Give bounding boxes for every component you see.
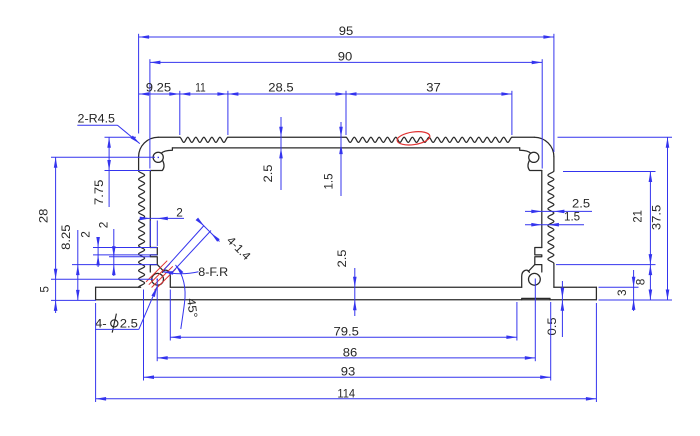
bottom face <box>96 299 597 301</box>
extension x=596.4 <box>595 303 597 402</box>
bottom-left screw boss <box>152 273 164 285</box>
svg-text:28.5: 28.5 <box>268 80 294 94</box>
flange right edge <box>595 287 597 300</box>
top-right corner arc R4.5 <box>534 137 554 157</box>
extension x=227.9 <box>227 91 229 135</box>
extension x=157.2 <box>156 279 158 362</box>
dimension 37.5 (overall height) <box>667 137 669 300</box>
extension y=170.5 <box>105 170 152 172</box>
extension y=300.4 <box>51 299 96 301</box>
svg-text:3: 3 <box>615 289 629 296</box>
extension line x=149.9 <box>149 59 151 168</box>
left wall outer serration <box>139 171 145 287</box>
left flange top <box>96 286 141 288</box>
right flange top <box>554 286 597 288</box>
extension y=256.8 <box>109 256 150 258</box>
svg-text:2: 2 <box>97 222 111 229</box>
dimension 86 (bottom) <box>157 357 535 359</box>
screw channel chamfer bottom-right <box>528 265 535 272</box>
svg-text:2.5: 2.5 <box>335 249 349 268</box>
dimension 8 (right) <box>649 265 651 300</box>
left wall inner slot teeth <box>150 248 157 273</box>
svg-text:7.75: 7.75 <box>92 179 106 205</box>
extension x=179.8 <box>179 91 181 135</box>
top edge middle smooth segment <box>228 136 346 138</box>
left wall outer straight <box>138 157 140 171</box>
dimension 90 <box>150 61 542 63</box>
dimension 2.5 (right wall) <box>525 210 592 212</box>
dimension 2.5 (floor thickness, center) <box>354 268 356 316</box>
svg-text:0.5: 0.5 <box>545 317 559 336</box>
svg-text:11: 11 <box>195 80 205 94</box>
dimension 93 (bottom) <box>144 376 551 378</box>
extension y=157.3 (hole center) <box>51 156 155 158</box>
svg-text:9.25: 9.25 <box>146 80 172 94</box>
svg-text:2.5: 2.5 <box>572 197 591 211</box>
top-left corner arc R4.5 <box>139 137 159 157</box>
svg-text:4-: 4- <box>95 317 107 331</box>
extension line x=542.2 <box>541 59 543 168</box>
extension x=143.5 <box>143 290 145 381</box>
bottom-right screw boss <box>529 273 541 285</box>
svg-text:2.5: 2.5 <box>120 317 139 331</box>
extension y=279.3 (hole center) <box>51 278 153 280</box>
dimension 2 (slot tooth 2) <box>113 229 115 276</box>
dimension 79.5 (bottom) <box>170 336 517 338</box>
extension x=346 <box>345 91 347 135</box>
svg-text:8: 8 <box>634 278 648 285</box>
dimension 2 (tooth protrusion, horizontal) <box>140 217 185 219</box>
dimension 95 (top) <box>139 36 554 38</box>
dimension 1.5 (top serration depth) <box>340 122 342 196</box>
dimension 1.5 (right wall serration) <box>525 224 584 226</box>
svg-text:37.5: 37.5 <box>650 204 664 230</box>
floor top surface <box>170 286 521 288</box>
extension x=157.3 <box>156 221 158 247</box>
svg-text:28: 28 <box>37 208 51 223</box>
right wall outer serration <box>548 171 554 263</box>
top serration group 1 (11mm) <box>180 137 228 142</box>
svg-text:1.5: 1.5 <box>322 173 336 190</box>
extension y=137.2 right <box>558 136 673 138</box>
dimension 3 (flange thickness) <box>633 270 635 311</box>
top serration group 2 (37mm) <box>346 137 512 142</box>
inner top edge <box>172 147 519 149</box>
top edge left smooth segment <box>158 136 180 138</box>
dimension 0.5 (bottom step) <box>561 281 563 337</box>
extension x=511.9 <box>511 91 513 135</box>
extension line x=553.9 <box>553 34 555 152</box>
svg-text:2.5: 2.5 <box>261 164 275 183</box>
dimension 2.5 (top wall thickness) <box>280 117 282 190</box>
extension x=550.7 <box>550 302 552 381</box>
right wall outer lower straight <box>553 264 555 288</box>
svg-text:2: 2 <box>79 231 93 238</box>
extension y=300 right <box>599 299 673 301</box>
dimension 8.25 <box>77 230 79 300</box>
diag dimension line <box>198 220 220 242</box>
left wall inner upper <box>149 171 151 248</box>
flange left edge <box>95 287 97 300</box>
red ellipse annotation on top serration <box>396 130 430 147</box>
note 45 deg with arc leader <box>176 265 186 329</box>
bottom 0.5 step notch near right wall <box>522 298 550 299</box>
dimension 2 (slot tooth 1) <box>97 239 99 267</box>
extension y=247.5 <box>93 247 157 249</box>
svg-text:86: 86 <box>343 345 358 359</box>
extension y=137.2 left <box>105 136 137 138</box>
top-left screw boss <box>161 148 172 153</box>
svg-text:93: 93 <box>341 365 356 379</box>
svg-text:79.5: 79.5 <box>334 325 360 339</box>
aluminum extrusion profile outline <box>96 137 597 300</box>
extension x=150.3 <box>149 221 151 247</box>
svg-text:8-F.R: 8-F.R <box>198 265 228 279</box>
right wall outer straight <box>553 157 555 171</box>
extension y=264.6 <box>72 264 157 266</box>
svg-text:2-R4.5: 2-R4.5 <box>78 111 116 125</box>
right wall inner slot teeth <box>535 248 542 273</box>
dimension 114 (bottom) <box>96 398 597 400</box>
dimension 21 (right) <box>649 172 651 265</box>
extension y=254.9 <box>93 254 157 256</box>
dimension 28 (left, hole ctr to hole ctr) <box>55 157 57 279</box>
extension x=95.6 <box>95 303 97 402</box>
svg-text:90: 90 <box>338 49 353 63</box>
svg-text:2: 2 <box>176 206 183 220</box>
svg-text:5: 5 <box>38 286 52 293</box>
screw channel chamfer bottom-left <box>157 265 164 272</box>
red knurl hatch lines at bottom-left screw channel <box>146 261 167 282</box>
top-right screw boss <box>520 148 531 153</box>
svg-text:45°: 45° <box>184 297 200 318</box>
svg-text:95: 95 <box>339 24 354 38</box>
diag extension line 2 <box>170 231 211 275</box>
extension line x=138.6 <box>138 34 140 134</box>
leader underline <box>77 124 117 126</box>
dimension 5 (left bottom) <box>55 279 57 313</box>
extension y=287.3 right <box>599 286 639 288</box>
svg-text:37: 37 <box>426 80 441 94</box>
right wall inner upper <box>541 171 543 248</box>
extension y=264.6 <box>556 264 656 266</box>
svg-text:8.25: 8.25 <box>59 224 73 250</box>
svg-text:1.5: 1.5 <box>564 210 581 224</box>
top edge right smooth segment <box>512 136 534 138</box>
leader underline <box>95 328 139 330</box>
chained dimensions 9.25 / 11 / 28.5 / 37 <box>139 93 512 95</box>
svg-text:114: 114 <box>337 386 355 400</box>
diag extension line 1 <box>164 226 204 270</box>
svg-text:21: 21 <box>631 210 645 223</box>
extension y=171.5 <box>563 171 656 173</box>
dimension 7.75 <box>108 137 110 207</box>
hole center marks <box>158 157 159 158</box>
extension x=516.9 <box>516 302 518 341</box>
extension x=170.3 <box>169 290 171 341</box>
extension x=535.3 <box>534 279 536 362</box>
